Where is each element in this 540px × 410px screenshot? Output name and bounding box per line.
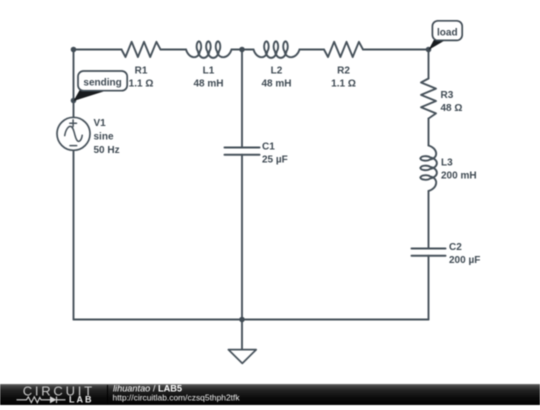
- svg-text:L2: L2: [271, 65, 283, 76]
- svg-text:48 mH: 48 mH: [193, 79, 223, 90]
- node middle top: [239, 47, 245, 53]
- V1 sine wave: [65, 126, 83, 141]
- capacitor C2: [412, 249, 446, 256]
- flag load box: [432, 21, 462, 41]
- svg-text:200 µF: 200 µF: [449, 255, 480, 266]
- svg-text:50 Hz: 50 Hz: [94, 145, 120, 156]
- wire R2 to load node: [363, 49, 429, 51]
- wire L2 to R2: [300, 49, 325, 51]
- svg-text:R1: R1: [135, 65, 148, 76]
- ground stem: [241, 320, 243, 350]
- svg-text:C1: C1: [262, 142, 275, 153]
- inductor L3: [420, 146, 437, 192]
- svg-text:R3: R3: [441, 90, 454, 101]
- wire L1 to L2: [232, 49, 254, 51]
- wire left branch upper: [73, 50, 75, 118]
- wire right branch lower: [428, 256, 430, 320]
- wire left branch lower: [73, 150, 75, 319]
- svg-text:L1: L1: [203, 65, 215, 76]
- svg-text:200 mH: 200 mH: [441, 171, 477, 182]
- wire load node to R3: [428, 50, 430, 79]
- flag sending tail: [74, 90, 108, 101]
- wire top-left to R1: [74, 49, 122, 51]
- svg-text:L3: L3: [441, 158, 453, 169]
- svg-text:1.1 Ω: 1.1 Ω: [129, 79, 154, 90]
- wire R1 to L1: [161, 49, 187, 51]
- logo diode triangle: [50, 396, 57, 403]
- node sending: [71, 98, 77, 104]
- svg-text:sending: sending: [83, 78, 121, 89]
- resistor R3: [421, 79, 436, 119]
- footer divider: [107, 385, 109, 404]
- svg-text:load: load: [437, 27, 458, 38]
- wire middle branch upper: [241, 50, 243, 148]
- inductor L2: [254, 41, 300, 58]
- capacitor C1: [225, 148, 260, 155]
- svg-text:48 Ω: 48 Ω: [441, 103, 463, 114]
- voltage source V1: [57, 117, 90, 150]
- footer bar: [0, 384, 540, 405]
- node ground: [239, 317, 245, 323]
- svg-text:25 µF: 25 µF: [262, 155, 288, 166]
- ground triangle: [228, 350, 256, 364]
- flag load tail: [429, 40, 446, 50]
- svg-text:LAB: LAB: [69, 395, 94, 405]
- svg-text:R2: R2: [337, 65, 350, 76]
- wire middle branch lower: [241, 155, 243, 320]
- node top-left: [71, 47, 77, 53]
- svg-text:http://circuitlab.com/czsq5thp: http://circuitlab.com/czsq5thph2tfk: [113, 393, 241, 403]
- wire R3 to L3: [428, 119, 430, 146]
- V1 minus sign: [70, 145, 77, 147]
- inductor L1: [186, 41, 232, 58]
- svg-text:1.1 Ω: 1.1 Ω: [331, 79, 356, 90]
- resistor R1: [122, 42, 161, 57]
- svg-text:sine: sine: [94, 132, 114, 143]
- flag sending box: [78, 71, 127, 91]
- node load: [426, 47, 432, 53]
- wire bottom: [74, 319, 429, 321]
- wire L3 to C2: [428, 191, 430, 249]
- logo schematic squiggle: [17, 397, 66, 404]
- resistor R2: [324, 42, 363, 57]
- V1 plus sign: [70, 120, 77, 127]
- svg-text:48 mH: 48 mH: [261, 79, 291, 90]
- svg-text:C2: C2: [449, 242, 462, 253]
- svg-text:V1: V1: [94, 118, 107, 129]
